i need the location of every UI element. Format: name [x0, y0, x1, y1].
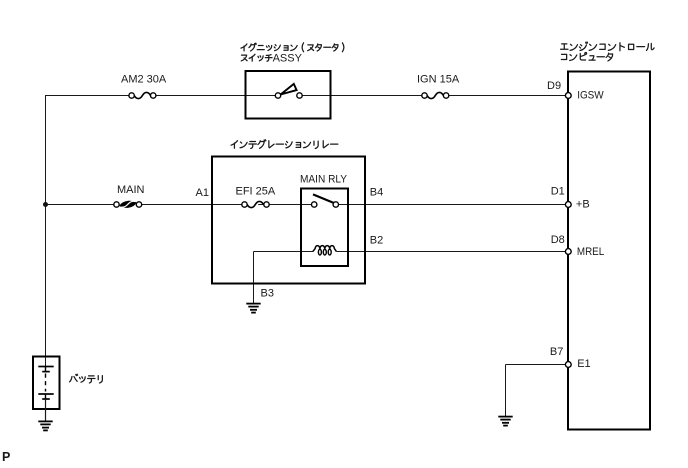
svg-text:B3: B3: [261, 288, 274, 300]
svg-text:IGSW: IGSW: [577, 90, 604, 102]
svg-text:IGN 15A: IGN 15A: [417, 73, 460, 85]
svg-text:P: P: [2, 450, 10, 463]
svg-text:D8: D8: [551, 234, 565, 246]
ground B3: [246, 304, 260, 313]
svg-text:AM2 30A: AM2 30A: [121, 73, 167, 85]
wire row3 MREL / coil: [254, 252, 567, 304]
svg-text:MAIN RLY: MAIN RLY: [300, 174, 348, 186]
battery: [33, 357, 60, 422]
fusible link MAIN: [114, 184, 145, 208]
svg-text:B4: B4: [370, 187, 383, 199]
svg-text:A1: A1: [196, 187, 209, 199]
wire left vertical main: [45, 95, 47, 367]
svg-text:EFI 25A: EFI 25A: [236, 186, 276, 198]
pin D1: [565, 202, 571, 208]
fuse IGN 15A: [417, 73, 460, 98]
svg-text:B2: B2: [370, 235, 383, 247]
pin D8: [565, 249, 571, 255]
pin D9: [565, 93, 571, 99]
ground battery: [38, 421, 52, 430]
junction node A: [43, 202, 48, 207]
pin B7: [565, 362, 571, 368]
svg-text:D1: D1: [551, 186, 565, 198]
switch (ignition): [246, 71, 331, 119]
svg-text:+B: +B: [576, 198, 590, 210]
label battery (katakana): [70, 374, 103, 383]
wire row1 IGSW: battery vertical top to ECU pin D9: [46, 95, 567, 97]
svg-text:MREL: MREL: [577, 246, 604, 258]
label engine control computer (katakana): [561, 42, 655, 51]
relay coil: [313, 246, 337, 252]
label integration relay (katakana): [231, 140, 338, 149]
svg-text:ASSY: ASSY: [273, 52, 303, 64]
integration relay box: [212, 157, 365, 284]
label ignition switch assy (katakana): [241, 43, 344, 52]
relay MAIN RLY box: [301, 189, 348, 267]
fuse AM2 30A: [121, 73, 167, 98]
svg-text:E1: E1: [577, 358, 590, 370]
ECU box: [568, 72, 650, 430]
fuse EFI 25A: [236, 186, 276, 208]
ground E1: [498, 417, 512, 426]
svg-text:MAIN: MAIN: [117, 184, 145, 196]
relay switch contacts: [312, 194, 339, 207]
svg-text:D9: D9: [547, 80, 561, 92]
svg-text:B7: B7: [550, 346, 563, 358]
wire row2 +B: [46, 204, 567, 206]
wire E1: [506, 365, 567, 417]
